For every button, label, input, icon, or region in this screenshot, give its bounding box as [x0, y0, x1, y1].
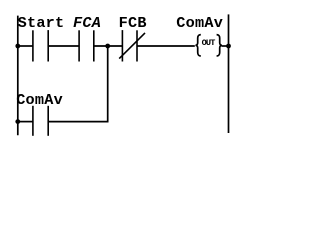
svg-text:ComAv: ComAv: [16, 91, 63, 109]
svg-text:FCA: FCA: [73, 14, 101, 32]
svg-text:ComAv: ComAv: [176, 14, 223, 32]
svg-text:OUT: OUT: [202, 38, 216, 48]
svg-text:Start: Start: [18, 14, 65, 32]
svg-text:FCB: FCB: [119, 14, 147, 32]
